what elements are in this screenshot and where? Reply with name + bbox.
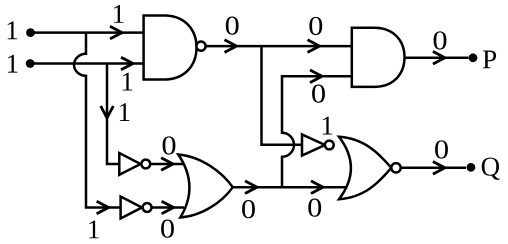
value label 0 at OR bottom input: [161, 220, 174, 238]
AND gate body: [352, 28, 405, 87]
output label Q: [482, 158, 500, 180]
middle NOT gate body: [302, 135, 325, 156]
NAND output bubble: [196, 42, 205, 51]
wire A to NAND top input: [30, 31, 144, 34]
value label 0 at AND top input: [309, 17, 322, 35]
top inverter output bubble: [141, 160, 150, 169]
wire branch from NAND output down to middle NOT gate input: [262, 46, 303, 145]
arrow 2 at NOR bottom input: [311, 181, 323, 194]
arrow 2 on NAND output wire: [308, 40, 320, 53]
wire AND output to P: [405, 56, 469, 59]
down arrow on branch wire: [101, 106, 114, 118]
node B value label 1: [8, 55, 18, 73]
NOR output bubble: [391, 163, 400, 172]
wire NOR output to Q: [401, 167, 466, 170]
arrow on wire A: [110, 26, 122, 39]
arrow on P wire: [433, 51, 445, 64]
wire top inverter to OR top input: [150, 163, 183, 166]
arrow on bottom inverter input wire: [97, 201, 109, 214]
arrow on Q wire: [433, 162, 445, 175]
wire NAND output to AND top input: [206, 45, 352, 48]
arrow on AND bottom input wire: [310, 70, 322, 83]
arrow 1 on OR output wire: [245, 181, 257, 194]
input terminal A (dot): [26, 28, 35, 37]
wire from OR output wire up to AND bottom input (with hop over NOT input wire): [282, 76, 352, 187]
arrow 1 on NAND output wire: [225, 40, 237, 53]
bottom inverter output bubble: [143, 203, 152, 212]
output terminal Q (dot): [467, 163, 476, 172]
value label 1 on wire B: [123, 73, 133, 91]
output label P: [483, 51, 496, 69]
middle NOT output bubble: [325, 141, 334, 150]
node A value label 1: [8, 21, 18, 39]
wire from B down to top inverter: [107, 64, 119, 165]
value label 1 beside down arrow: [120, 103, 130, 121]
value label 0 on Q wire: [435, 140, 448, 158]
NAND gate body: [144, 16, 197, 80]
OR gate body: [178, 155, 233, 218]
value label 0 at OR top input: [163, 136, 176, 154]
value label 1 below bottom inverter input: [89, 220, 99, 238]
value label 1 at NOR top input: [323, 117, 333, 135]
output terminal P (dot): [469, 53, 478, 62]
value label 0 after NAND: [226, 17, 239, 35]
wire bottom inverter to OR bottom input: [152, 206, 185, 209]
value label 0 at AND bottom input: [312, 85, 325, 103]
wire OR output to NOR bottom input: [233, 186, 346, 189]
wire from A down to bottom inverter (with hop over wire B): [74, 33, 121, 208]
arrow on wire B: [121, 57, 133, 70]
input terminal B (dot): [26, 59, 35, 68]
NOR gate body: [339, 137, 391, 199]
bottom inverter (NOT) body: [121, 197, 142, 219]
wire B to NAND bottom input: [30, 62, 144, 65]
top inverter (NOT) body: [119, 153, 140, 175]
value label 0 on P wire: [434, 31, 447, 49]
value label 0 at NOR bottom input: [308, 199, 321, 217]
arrow at OR top input: [161, 158, 173, 171]
value label 0 after OR output: [242, 200, 255, 218]
value label 1 on wire A: [114, 5, 124, 23]
arrow at OR bottom input: [162, 201, 174, 214]
